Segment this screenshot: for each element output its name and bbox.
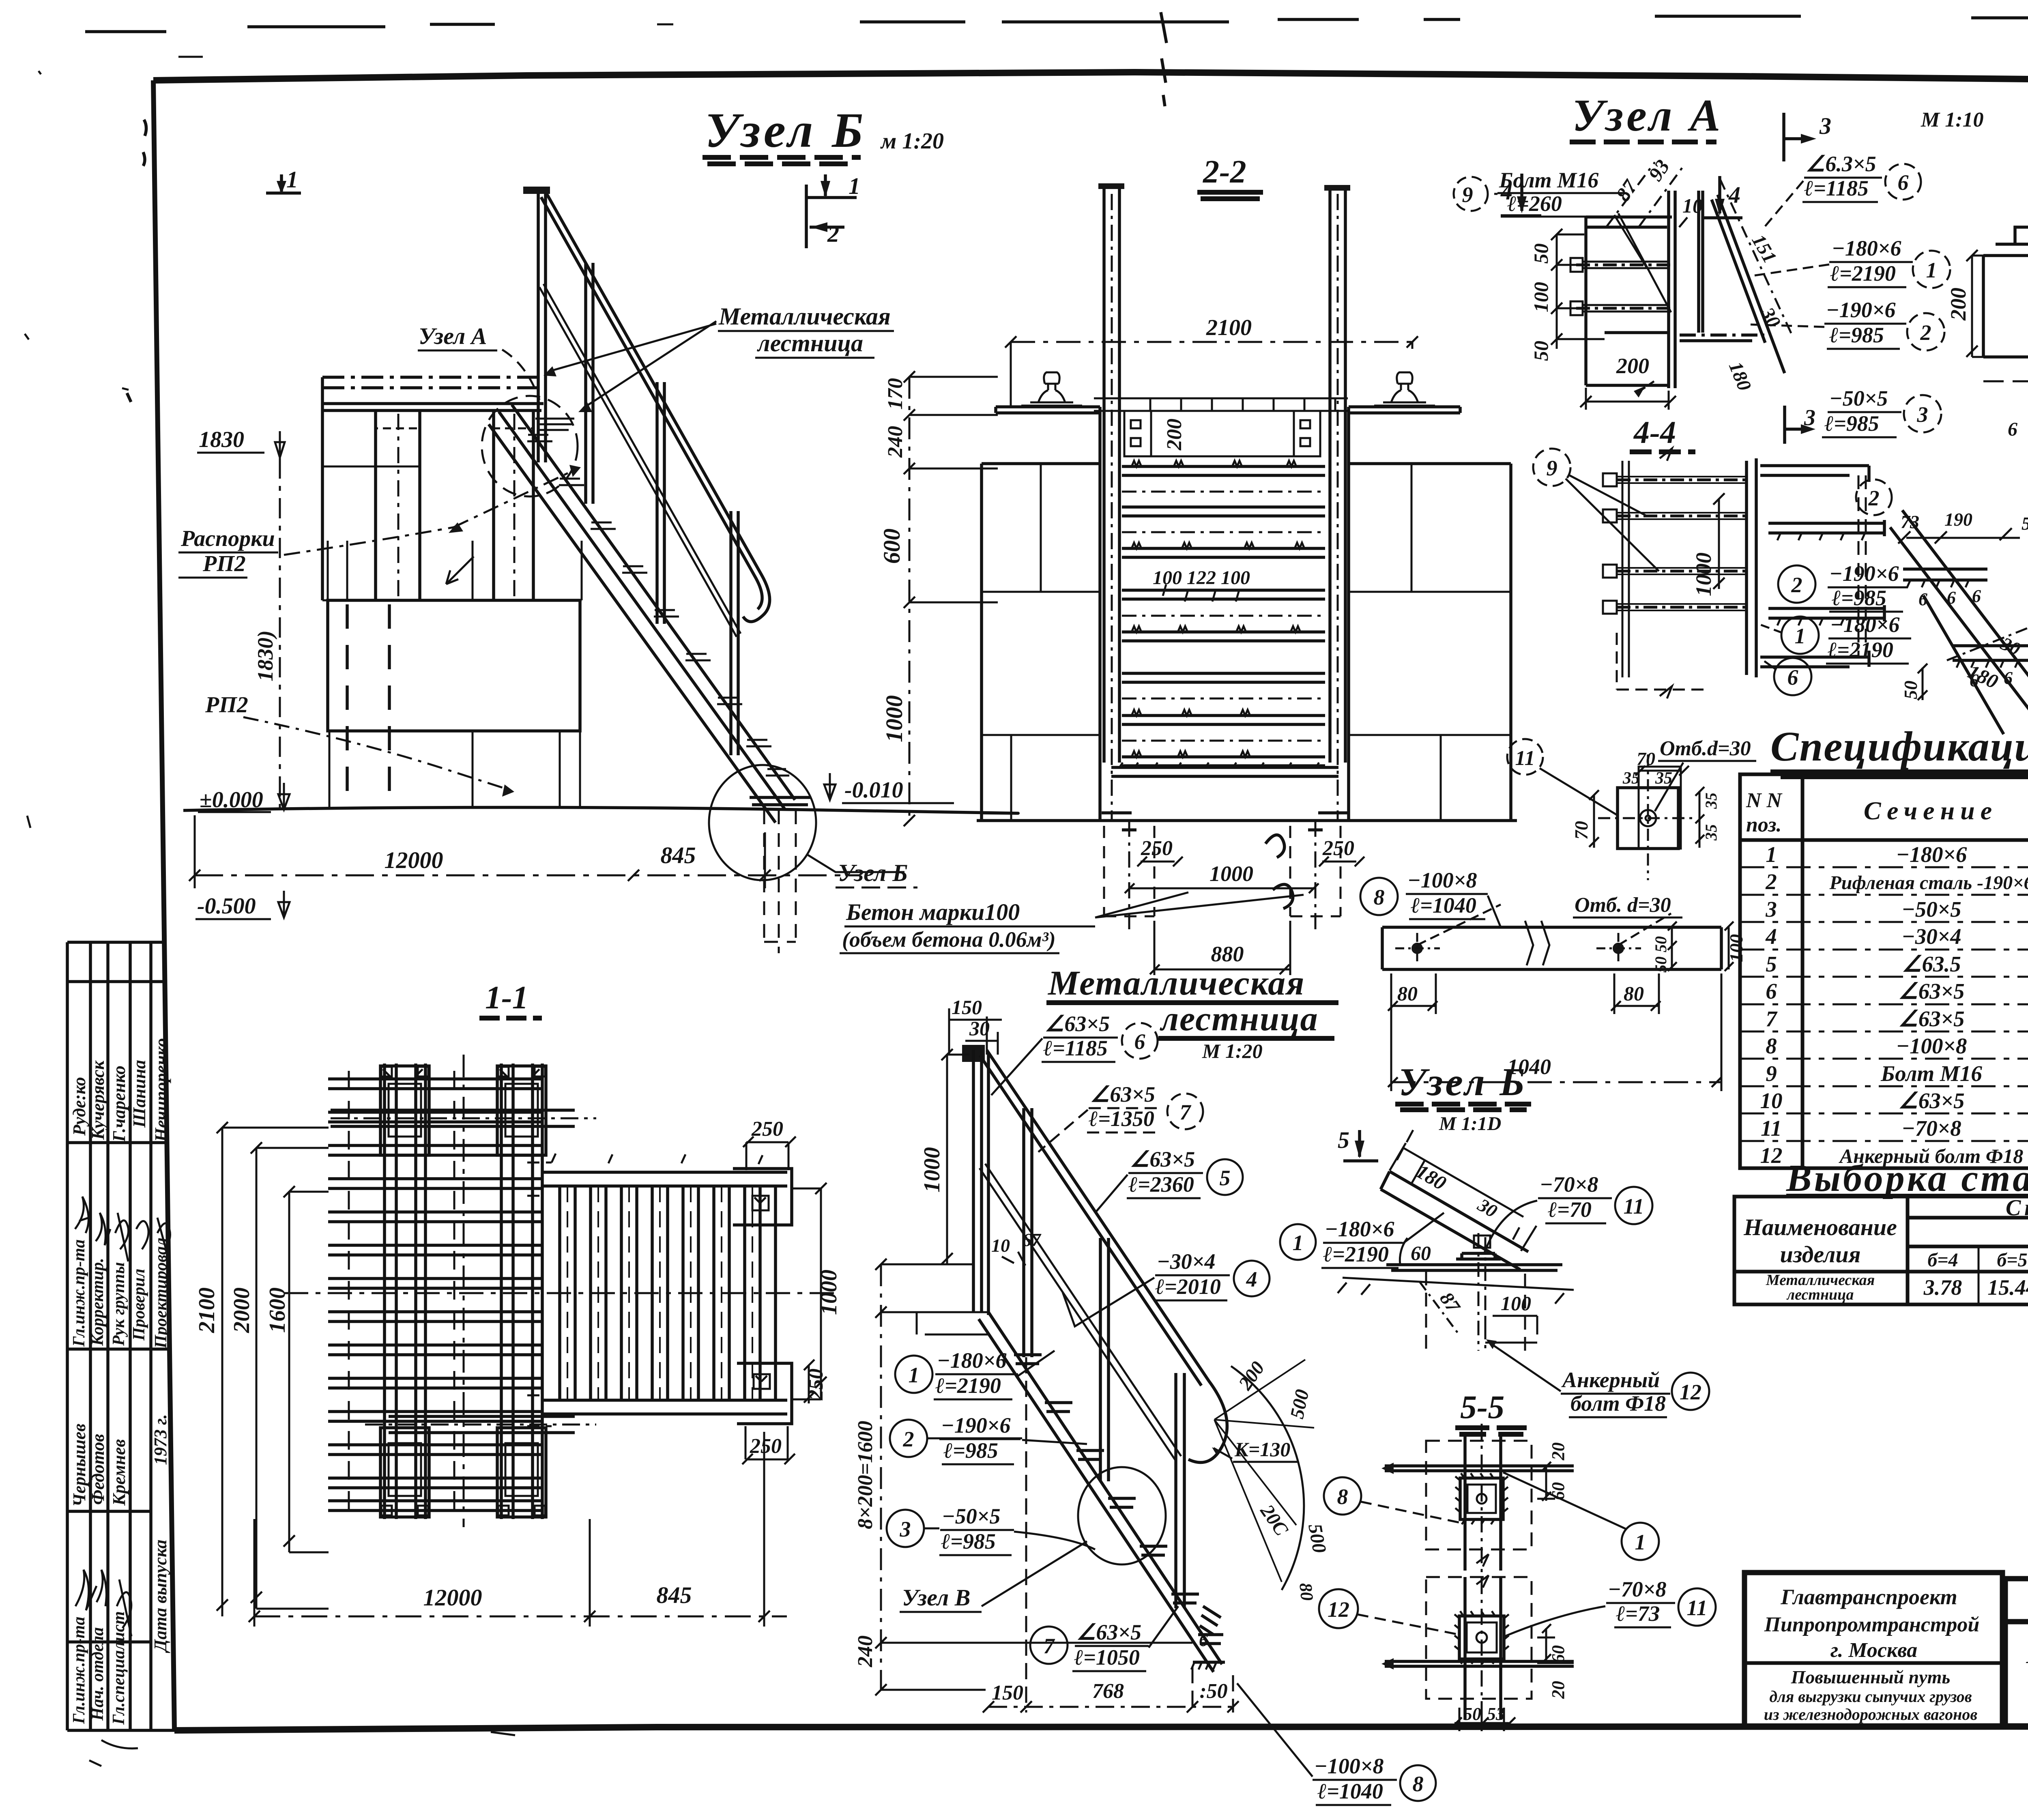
strip hole leaders [1417, 905, 1671, 945]
svg-text:−70×8: −70×8 [1901, 1116, 1961, 1141]
upper dims 60 20 [1537, 1462, 1574, 1501]
stamp second names [69, 1424, 129, 1507]
svg-text:80: 80 [1624, 982, 1644, 1005]
svg-text:ℓ=7З: ℓ=7З [1616, 1601, 1660, 1626]
section mark 3 top [1784, 113, 1806, 161]
panel joint dashed lines [347, 604, 389, 807]
svg-text:лестница: лестница [756, 330, 863, 357]
SECTION: view 2-2 [879, 154, 1517, 975]
svg-text:2: 2 [827, 221, 839, 247]
svg-text:ℓ=1185: ℓ=1185 [1043, 1036, 1108, 1060]
ground line [183, 807, 1018, 813]
platform left edge [321, 377, 324, 600]
frame top edge [153, 72, 2028, 84]
label bolt M16 (9) [1454, 177, 1488, 211]
dim 1000 post [941, 1049, 973, 1264]
label (9) [1533, 449, 1570, 486]
svg-text:190: 190 [1944, 509, 1972, 530]
svg-text:Нечипоренко: Нечипоренко [151, 1038, 171, 1142]
svg-text:11: 11 [1623, 1194, 1644, 1218]
upper inner plate [1460, 1478, 1503, 1519]
plan bottom dim 12000 845 [254, 1616, 787, 1618]
label (8) -100x8 l=1040 [1360, 878, 1398, 915]
svg-text:6: 6 [2008, 419, 2017, 440]
vertical dim 1830 [279, 458, 281, 810]
svg-text:−180×6: −180×6 [1832, 236, 1901, 260]
washer detail squares [1618, 767, 1681, 849]
SECTION: vyborka table [0, 0, 0, 0]
section mark 1 left [266, 174, 301, 194]
svg-text:ℓ=985: ℓ=985 [1829, 323, 1884, 347]
svg-text:∠6.3×5: ∠6.3×5 [1806, 152, 1876, 176]
washer on plate [1456, 1253, 1501, 1259]
right wall [1349, 464, 1511, 821]
svg-text:1600: 1600 [265, 1287, 290, 1333]
svg-text:9: 9 [1766, 1061, 1777, 1086]
SECTION: view 3-3 [0, 0, 0, 0]
vyborka grid [1734, 1197, 2028, 1304]
svg-text:1000: 1000 [1691, 552, 1716, 596]
svg-text:−180×6: −180×6 [937, 1348, 1007, 1373]
stringer incline [1890, 510, 2028, 720]
upper base: outer dashed [1426, 1441, 1532, 1549]
dim 50 50 bottom [1452, 1708, 1515, 1731]
stair stringer [489, 405, 795, 823]
svg-text:1830: 1830 [199, 427, 244, 452]
svg-text:250: 250 [750, 1435, 782, 1458]
plate body [1983, 227, 2028, 357]
svg-text:Сталь прокатная Ст.3: Сталь прокатная Ст.3 [2006, 1195, 2028, 1220]
dim 1000 right rotated [793, 1183, 827, 1399]
svg-text:±0.000: ±0.000 [200, 787, 263, 812]
torn paper top edge dashes [85, 16, 2028, 32]
svg-text:−190×6: −190×6 [941, 1413, 1011, 1438]
svg-text:8×200=1600: 8×200=1600 [854, 1421, 877, 1529]
left post [973, 1050, 988, 1315]
svg-text:ℓ=70: ℓ=70 [1548, 1197, 1592, 1222]
svg-text:100: 100 [1530, 282, 1552, 312]
svg-text:2000: 2000 [229, 1287, 254, 1333]
leader arrows to bolts from label [1614, 213, 1671, 312]
anchor bolt [1478, 1233, 1485, 1351]
SECTION: title block [1744, 1515, 2028, 1730]
svg-text:∠63×5: ∠63×5 [1898, 1006, 1964, 1031]
deck slab right [1349, 407, 1511, 464]
svg-text:ℓ=1350: ℓ=1350 [1089, 1107, 1154, 1131]
svg-text:Повышенный путь: Повышенный путь [1791, 1667, 1951, 1687]
svg-text:Отб.d=30: Отб.d=30 [1660, 737, 1751, 760]
svg-text:2100: 2100 [1206, 315, 1252, 340]
coping tiles [1094, 398, 1348, 411]
SECTION: view 5-5 [1319, 1388, 1716, 1731]
SECTION: specification table [1740, 723, 2028, 1168]
svg-text:Выборка стали на лестницу: Выборка стали на лестницу [1786, 1157, 2028, 1199]
stair foot [750, 797, 810, 805]
vertical plate edges [1586, 191, 1703, 388]
svg-text:-0.500: -0.500 [197, 894, 256, 919]
svg-text:100: 100 [1501, 1292, 1531, 1315]
svg-text:1000: 1000 [919, 1147, 945, 1193]
svg-text:6: 6 [1898, 170, 1909, 195]
svg-text:РП2: РП2 [205, 692, 248, 718]
svg-text:Гл.инж.пр-та: Гл.инж.пр-та [70, 1240, 88, 1347]
strip holes [1411, 943, 1423, 954]
SECTION: strip detail pos8 [1360, 737, 1756, 1091]
sleepers horizontal bars [328, 1079, 542, 1511]
rail fastening boxes bottom [380, 1428, 546, 1517]
second stringer edge lower-left [1923, 595, 2004, 734]
svg-text:150: 150 [952, 996, 982, 1019]
svg-text:12: 12 [1680, 1380, 1701, 1404]
svg-text:Болт М16: Болт М16 [1499, 168, 1598, 192]
svg-text:1000: 1000 [881, 695, 907, 742]
svg-text:Гл.специалист: Гл.специалист [110, 1611, 128, 1725]
svg-text:4: 4 [1765, 924, 1777, 949]
svg-text:1: 1 [909, 1363, 919, 1387]
stamp rotated role labels [70, 1238, 170, 1349]
svg-text:ℓ=1040: ℓ=1040 [1411, 893, 1476, 918]
foundations dashed [1104, 826, 1341, 916]
foot foundation dashed [764, 810, 796, 953]
svg-text:Узел А: Узел А [1572, 90, 1723, 141]
svg-text:5: 5 [1220, 1166, 1231, 1190]
svg-text:200: 200 [1163, 419, 1186, 451]
svg-text:Отб. d=30: Отб. d=30 [1575, 894, 1671, 917]
svg-text:−50×5: −50×5 [1829, 386, 1888, 410]
label (12) lower [1319, 1589, 1358, 1628]
svg-text:1: 1 [1293, 1231, 1304, 1255]
treads front view [1122, 466, 1325, 766]
platform top beam dashed [322, 377, 539, 388]
svg-text:35: 35 [1702, 793, 1720, 809]
hook arc dims right [1214, 1360, 1314, 1590]
mid rail [980, 1164, 1181, 1460]
svg-text:Анкерный: Анкерный [1561, 1368, 1660, 1392]
svg-text:ℓ=2190: ℓ=2190 [1323, 1242, 1389, 1266]
svg-text:7: 7 [1180, 1100, 1192, 1124]
label (2) -190x6 [890, 1420, 927, 1457]
svg-text:N N: N N [1746, 789, 1783, 812]
svg-text:К=130: К=130 [1234, 1438, 1290, 1461]
stringer [979, 1312, 1222, 1672]
svg-text:3: 3 [1819, 113, 1831, 139]
svg-text:7: 7 [1044, 1634, 1055, 1658]
svg-text:1000: 1000 [816, 1270, 842, 1315]
svg-text:ℓ=985: ℓ=985 [1832, 586, 1886, 610]
small foot marks [1200, 1606, 1221, 1635]
svg-text:10: 10 [991, 1235, 1010, 1256]
SECTION: view 3-3 [1946, 98, 2028, 462]
svg-text:100: 100 [1726, 934, 1747, 962]
centerline [1481, 1424, 1483, 1728]
title block org cell [1764, 1585, 1980, 1723]
svg-text:8: 8 [1413, 1772, 1424, 1796]
svg-text:35: 35 [1622, 769, 1640, 788]
left dim chain 8x200=1600 [875, 1259, 1192, 1695]
svg-text:250: 250 [804, 1369, 827, 1401]
svg-text:Проверил: Проверил [130, 1269, 148, 1341]
section mark 3 bottom with label (3) [1785, 406, 1804, 444]
svg-text:Металлическая: Металлическая [1047, 963, 1305, 1002]
svg-text:лестница: лестница [1786, 1286, 1854, 1303]
stringer inclined band [1381, 1171, 1528, 1270]
svg-text:Болт М16: Болт М16 [1880, 1061, 1982, 1086]
label (6) bottom [1774, 658, 1811, 695]
treads marks on stringer [1014, 1355, 1223, 1644]
stringer dashed verticals [1858, 475, 1866, 657]
SECTION: Uzel A detail [1454, 90, 1984, 452]
svg-text:5: 5 [1766, 952, 1777, 976]
svg-text:250: 250 [1322, 837, 1354, 860]
svg-text:100 122 100: 100 122 100 [1153, 567, 1250, 589]
vyborka header text [1743, 1195, 2028, 1272]
sleeper dashed joints [349, 1071, 454, 1519]
svg-text:Пипропромтранстрой: Пипропромтранстрой [1764, 1613, 1980, 1636]
deck slab left [982, 407, 1100, 464]
stair plan stringer top [542, 1172, 787, 1414]
stamp rotated labels: top names [69, 1038, 171, 1142]
svg-text:70: 70 [1637, 748, 1655, 769]
dashed circle at stair top (Uzel A site) [482, 396, 578, 496]
lower inner plate [1459, 1616, 1504, 1659]
SECTION: Uzel V detail [1890, 426, 2028, 783]
svg-text:∠63×5: ∠63×5 [1090, 1082, 1155, 1107]
svg-text:−50×5: −50×5 [1901, 897, 1961, 922]
svg-text:из железнодорожных вагонов: из железнодорожных вагонов [1764, 1705, 1978, 1723]
svg-text:60: 60 [1411, 1242, 1431, 1264]
svg-text:240: 240 [854, 1635, 877, 1667]
svg-text:845: 845 [661, 842, 696, 868]
rail post P4 [731, 511, 738, 755]
svg-text:80: 80 [1397, 982, 1418, 1005]
bearing pad hatch at stringer seat [535, 419, 574, 430]
bottom dim line 12000 / 845 [195, 875, 860, 877]
svg-text:1: 1 [1926, 258, 1937, 282]
upper tread [1903, 569, 1987, 587]
mid-rail [539, 284, 741, 637]
svg-text:−30×4: −30×4 [1157, 1249, 1216, 1274]
svg-text:∠63×5: ∠63×5 [1130, 1147, 1195, 1171]
right column [494, 410, 533, 600]
svg-text:6: 6 [1199, 1630, 1208, 1650]
svg-text:Нач. отдела: Нач. отдела [88, 1627, 107, 1721]
svg-text:−180×6: −180×6 [1325, 1217, 1394, 1241]
svg-text::50: :50 [1199, 1680, 1227, 1703]
left column [322, 410, 420, 600]
svg-text:6: 6 [1972, 586, 1981, 606]
stamp signatures middle [75, 1197, 170, 1262]
svg-text:ℓ=2190: ℓ=2190 [1830, 261, 1896, 286]
svg-text:∠63×5: ∠63×5 [1898, 1088, 1964, 1113]
platform big panel [328, 600, 580, 731]
svg-text:10: 10 [1682, 194, 1703, 217]
svg-text:-0.010: -0.010 [844, 778, 903, 803]
spec table rows [1760, 842, 2028, 1168]
svg-text:Сечение: Сечение [1864, 796, 1998, 825]
svg-text:50: 50 [1463, 1704, 1481, 1724]
svg-text:200: 200 [1616, 354, 1649, 378]
svg-text:2: 2 [1791, 573, 1802, 597]
svg-text:880: 880 [1211, 942, 1244, 966]
svg-text:50: 50 [1530, 243, 1552, 264]
rails vertical [385, 1064, 542, 1519]
vertical plate [1747, 458, 1869, 677]
callout circle Uzel B foot [709, 765, 816, 880]
svg-text:768: 768 [1092, 1680, 1124, 1703]
SECTION: left signature stamp [67, 942, 174, 1730]
svg-text:−190×6: −190×6 [1826, 298, 1896, 322]
svg-text:ℓ=1040: ℓ=1040 [1317, 1779, 1383, 1803]
plan left dim lines 2100 2000 1600 [217, 1122, 329, 1616]
stair treads [527, 435, 789, 776]
svg-text:4-4: 4-4 [1633, 415, 1676, 450]
left dim chain [904, 371, 998, 826]
svg-text:9: 9 [1547, 456, 1558, 480]
base plate [1386, 1265, 1562, 1270]
bolts dashed [1570, 258, 1675, 315]
svg-text:7: 7 [1766, 1006, 1778, 1031]
dim 1000 rotated [1713, 493, 1725, 589]
rail post 2 [1024, 1108, 1032, 1357]
svg-text:б=5: б=5 [1997, 1249, 2027, 1271]
label (3) -50x5 [887, 1510, 924, 1547]
platform mid band [322, 600, 582, 602]
top plate [1586, 217, 1672, 227]
strip plate pos8 [1382, 927, 1721, 969]
svg-text:20: 20 [1548, 1681, 1568, 1699]
left dim 200 [1966, 250, 1983, 357]
vertical bolt post lines [1622, 461, 1629, 677]
rail post 3 [1100, 1238, 1109, 1481]
svg-text:ℓ=985: ℓ=985 [1824, 411, 1879, 436]
svg-text:3: 3 [1917, 402, 1928, 427]
svg-text:8: 8 [1337, 1485, 1348, 1509]
svg-text:80: 80 [1295, 1582, 1317, 1602]
landing plate bottom right [737, 1363, 792, 1424]
washer leader (11) [1507, 739, 1543, 775]
landing plate top [1124, 411, 1320, 456]
svg-text:Чернышев: Чернышев [69, 1424, 89, 1507]
SECTION: view 4-4 [0, 0, 0, 0]
svg-text:г. Москва: г. Москва [1830, 1639, 1917, 1662]
svg-text:−30×4: −30×4 [1901, 924, 1961, 949]
svg-text:9: 9 [1462, 183, 1473, 207]
svg-text:Узел А: Узел А [419, 323, 487, 349]
foundation below [1338, 1272, 1574, 1351]
svg-text:изделия: изделия [1780, 1241, 1860, 1268]
svg-text:Бетон марки100: Бетон марки100 [846, 899, 1020, 925]
handrail [987, 1050, 1227, 1463]
svg-text:6: 6 [1134, 1029, 1145, 1054]
dash-dot tread centerlines [1122, 492, 1325, 741]
svg-text:6: 6 [2004, 668, 2013, 688]
label (2) -190x6 [1778, 565, 1815, 603]
svg-text:∠63×5: ∠63×5 [1045, 1012, 1110, 1036]
svg-text:1830): 1830) [253, 630, 277, 681]
label (1) right [1622, 1523, 1659, 1560]
svg-text:2: 2 [903, 1427, 914, 1451]
title block grid [1744, 1573, 2028, 1727]
svg-text:35: 35 [1702, 824, 1720, 841]
section mark 1-2 right [806, 174, 857, 248]
svg-text:−70×8: −70×8 [1540, 1172, 1598, 1197]
svg-text:1-1: 1-1 [485, 980, 528, 1016]
SECTION: vyborka table [1734, 1157, 2028, 1304]
svg-text:50: 50 [1652, 956, 1670, 973]
svg-text:Узел Б: Узел Б [705, 103, 866, 158]
svg-text:8: 8 [1766, 1034, 1777, 1058]
stamp table grid [67, 942, 174, 1730]
lower vertical band [1465, 1577, 1501, 1720]
Uzel A plate drawing [1586, 191, 1785, 388]
rail post P1 [538, 191, 546, 462]
treads side [1768, 520, 1884, 621]
stair plan treads [560, 1186, 776, 1400]
svg-text:ℓ=1050: ℓ=1050 [1074, 1645, 1140, 1670]
svg-text:ℓ=2190: ℓ=2190 [935, 1373, 1001, 1398]
svg-text:240: 240 [884, 426, 907, 458]
messy ink blot near right foundation [1265, 835, 1293, 909]
bottom flange [1680, 333, 1764, 337]
svg-text:11: 11 [1515, 747, 1535, 770]
svg-text:Спецификация стали на лестницу: Спецификация стали на лестницу. [1770, 723, 2028, 770]
svg-text:−180×6: −180×6 [1896, 842, 1967, 867]
svg-text:−70×8: −70×8 [1608, 1577, 1667, 1601]
svg-text:5: 5 [1338, 1127, 1349, 1153]
label -180x6 (1) [1280, 1224, 1316, 1260]
svg-text:6: 6 [1766, 979, 1777, 1003]
svg-text:67: 67 [1022, 1229, 1042, 1250]
svg-text:−190×6: −190×6 [1829, 561, 1899, 586]
horizontal centerline across [284, 1292, 836, 1294]
rail post P3 [657, 382, 664, 624]
svg-text:11: 11 [1686, 1596, 1707, 1620]
svg-text:Распорки: Распорки [180, 526, 275, 551]
svg-text:1: 1 [849, 173, 860, 199]
svg-text:12: 12 [1760, 1143, 1783, 1168]
handrail [541, 194, 770, 622]
inclined stringer [1712, 195, 1785, 373]
bottom dim 150 768 50 [983, 1357, 1239, 1713]
svg-text:Кремнев: Кремнев [109, 1439, 129, 1506]
svg-text:−100×8: −100×8 [1407, 868, 1477, 892]
svg-text:Гл.инж.пр-та: Гл.инж.пр-та [70, 1617, 88, 1724]
left post cap [962, 1045, 985, 1062]
rail post 4 [1176, 1373, 1184, 1608]
upper bar through [1385, 1466, 1574, 1471]
svg-text:ℓ=985: ℓ=985 [941, 1529, 996, 1554]
svg-text:ℓ=2190: ℓ=2190 [1828, 638, 1893, 662]
SECTION: staircase elevation M1:20 [854, 963, 1436, 1805]
upper vertical band [1465, 1432, 1501, 1571]
vyborka data row [1766, 1272, 2028, 1303]
rail profile left [1021, 372, 1082, 406]
lower dims 60 20 [1537, 1624, 1574, 1663]
svg-text:8: 8 [1374, 885, 1385, 909]
svg-text:845: 845 [657, 1582, 692, 1608]
svg-text:6: 6 [1787, 665, 1798, 690]
svg-text:∠63.5: ∠63.5 [1902, 952, 1961, 976]
svg-text:10: 10 [1760, 1088, 1783, 1113]
lower bar through [1385, 1661, 1574, 1666]
svg-text:для выгрузки сыпучих грузов: для выгрузки сыпучих грузов [1769, 1687, 1972, 1706]
svg-text:поз.: поз. [1746, 813, 1782, 836]
svg-text:12000: 12000 [423, 1584, 482, 1611]
svg-text:2: 2 [1920, 320, 1931, 345]
rail profile right [1374, 372, 1435, 406]
dim 50 left [1918, 664, 1927, 700]
strip right dims 50 50 100 [1668, 922, 1677, 971]
